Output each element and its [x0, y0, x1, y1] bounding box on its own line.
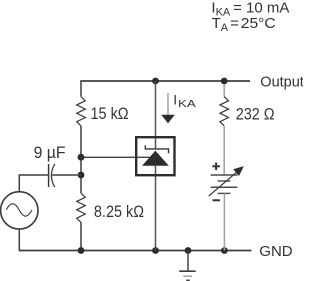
svg-text:Output: Output — [260, 75, 303, 91]
node junction ground bus battery branch — [221, 247, 228, 254]
AC source sine wave — [6, 204, 32, 217]
battery adjustment arrow — [209, 166, 244, 196]
wire output line — [80, 80, 250, 82]
resistor 232 Ohm — [220, 97, 229, 126]
svg-text:GND: GND — [259, 243, 293, 260]
svg-text:232 Ω: 232 Ω — [236, 105, 275, 123]
resistor 8.25 kOhm — [77, 193, 86, 222]
svg-text:= 10 mA: = 10 mA — [233, 0, 289, 17]
capacitor 9 uF curved plate — [51, 164, 54, 187]
svg-text:25°C: 25°C — [241, 15, 276, 32]
wire left rail top lead — [80, 81, 82, 97]
wire capacitor left lead — [19, 174, 48, 176]
node junction on output line at cathode rail — [152, 78, 159, 85]
battery adjustable plate 1 — [211, 174, 238, 176]
op-amp U1 shunt regulator box — [136, 137, 174, 175]
AC source circle — [1, 192, 38, 229]
svg-text:=: = — [230, 15, 239, 32]
node junction left rail to reference — [78, 154, 85, 161]
wire cathode rail bottom — [155, 166, 157, 251]
U1 cathode bar with bent ends — [145, 145, 168, 153]
node junction ground bus cathode rail — [152, 247, 159, 254]
wire cathode rail top — [155, 81, 157, 149]
battery minus sign — [213, 199, 221, 201]
annotation T_A = 25 C — [212, 15, 276, 34]
wire battery top lead — [223, 126, 225, 175]
annotation I_KA = 10 mA — [211, 0, 289, 19]
wire ground bus — [19, 250, 252, 252]
node junction ground bus ground symbol — [185, 247, 192, 254]
U1 anode triangle — [142, 151, 169, 166]
wire left rail middle — [80, 126, 82, 193]
node junction ground bus left rail — [78, 247, 85, 254]
svg-text:15 kΩ: 15 kΩ — [91, 105, 129, 123]
current arrow I_KA — [161, 93, 175, 123]
wire reference line to regulator — [81, 156, 150, 158]
node junction left rail to capacitor — [78, 172, 85, 179]
ground symbol — [179, 251, 196, 281]
wire source bottom riser — [18, 229, 20, 250]
wire battery bottom lead — [223, 193, 225, 250]
wire capacitor right lead — [52, 174, 81, 176]
battery plate 2 — [218, 180, 231, 182]
capacitor 9 uF flat plate — [48, 164, 50, 187]
svg-text:KA: KA — [178, 97, 196, 109]
wire left rail bottom lead — [80, 222, 82, 250]
battery plus sign — [212, 163, 220, 171]
wire 232 ohm top lead — [223, 84, 225, 97]
battery plate 3 — [211, 186, 238, 188]
svg-text:9 µF: 9 µF — [34, 144, 66, 163]
resistor 15 kOhm — [77, 97, 86, 126]
svg-text:I: I — [173, 91, 177, 107]
node junction on output line at 232 ohm branch — [221, 78, 228, 85]
svg-text:8.25 kΩ: 8.25 kΩ — [94, 203, 144, 221]
wire source top riser — [18, 175, 20, 192]
battery plate 4 — [218, 192, 231, 194]
